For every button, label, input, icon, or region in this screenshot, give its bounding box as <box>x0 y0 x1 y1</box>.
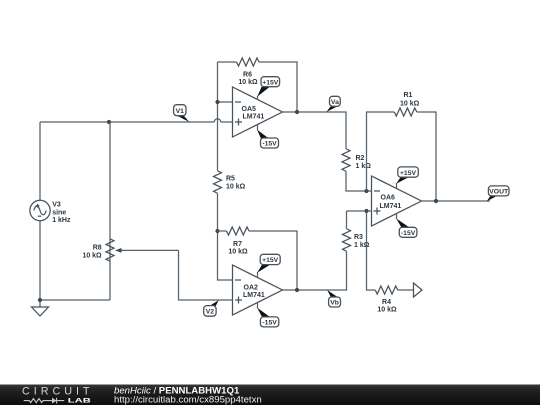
label R6 value <box>238 72 258 87</box>
svg-text:OA6: OA6 <box>381 195 396 202</box>
node junction OA5 minus <box>215 100 219 104</box>
label -15V (OA5) <box>257 130 278 148</box>
resistor R6 <box>237 58 260 66</box>
svg-text:Vb: Vb <box>330 300 339 307</box>
wire OA6 plus node to R4 <box>367 211 414 290</box>
label R7 value <box>228 241 248 256</box>
wire V3 bottom to ground rail <box>40 122 110 300</box>
node junction V1/R8 <box>107 120 111 124</box>
node junction ground <box>38 298 42 302</box>
svg-text:LM741: LM741 <box>380 203 402 210</box>
wire OA2 output to Vb/R3 <box>283 251 347 290</box>
svg-text:1 kHz: 1 kHz <box>52 217 71 224</box>
svg-text:R5: R5 <box>226 176 235 183</box>
svg-text:OA5: OA5 <box>242 106 257 113</box>
svg-text:10 kΩ: 10 kΩ <box>226 183 246 190</box>
svg-text:-15V: -15V <box>401 230 416 237</box>
svg-text:+15V: +15V <box>262 257 279 264</box>
svg-text:V1: V1 <box>176 108 185 115</box>
resistor R3 <box>343 229 351 251</box>
node junction OA6 minus <box>364 189 368 193</box>
power stub OA2 V+ <box>257 272 259 278</box>
voltage source V3 <box>30 200 50 220</box>
svg-text:-15V: -15V <box>262 141 277 148</box>
label -15V (OA2) <box>257 308 279 327</box>
svg-text:LM741: LM741 <box>243 114 265 121</box>
svg-text:-15V: -15V <box>262 320 277 327</box>
svg-text:V3: V3 <box>52 202 61 209</box>
svg-text:10 kΩ: 10 kΩ <box>82 253 102 260</box>
svg-text:R6: R6 <box>243 72 252 79</box>
svg-text:R3: R3 <box>354 234 363 241</box>
label +15V (OA2) <box>257 254 280 272</box>
svg-text:10 kΩ: 10 kΩ <box>238 79 258 86</box>
svg-text:10 kΩ: 10 kΩ <box>400 101 420 108</box>
wire OA5 output to Va/R2 <box>283 112 347 149</box>
node junction R5/R7 <box>215 229 219 233</box>
svg-text:R7: R7 <box>233 241 242 248</box>
svg-text:R1: R1 <box>404 92 413 99</box>
wire OA6 output to VOUT <box>422 200 491 202</box>
power stub OA6 V- <box>396 214 398 220</box>
power stub OA5 V+ <box>257 96 259 100</box>
resistor R4 <box>375 286 398 294</box>
wire R5 column <box>218 62 233 280</box>
label +15V (OA5) <box>257 77 279 97</box>
svg-text:LM741: LM741 <box>243 292 265 299</box>
power stub OA6 V+ <box>396 183 398 189</box>
svg-text:sine: sine <box>52 210 66 217</box>
label R1 value <box>400 92 420 108</box>
logo wire with resistor and diode <box>24 398 64 404</box>
wire R3 to OA6 plus <box>347 211 372 229</box>
wire top rail V1 net <box>40 122 233 200</box>
svg-text:+15V: +15V <box>400 170 417 177</box>
ground symbol <box>32 300 49 316</box>
wire R7 feedback loop <box>218 231 298 290</box>
node junction OA6 plus <box>364 209 368 213</box>
label Vb <box>327 290 340 307</box>
svg-text:OA2: OA2 <box>244 284 259 291</box>
svg-text:VOUT: VOUT <box>489 189 509 196</box>
resistor R7 <box>227 227 249 235</box>
resistor R1 <box>394 108 417 116</box>
label V1 <box>174 105 190 122</box>
label R2 value <box>356 155 372 170</box>
power stub OA5 V- <box>257 125 259 131</box>
ground symbol right <box>414 283 423 297</box>
label R8 value <box>82 245 102 260</box>
label R5 value <box>226 176 246 191</box>
wire hop over R5 column <box>214 119 220 122</box>
op-amp OA6 <box>372 176 422 226</box>
svg-text:10 kΩ: 10 kΩ <box>377 307 397 314</box>
svg-text:V2: V2 <box>206 309 215 316</box>
wire R1 feedback loop <box>367 112 437 201</box>
svg-text:1 kΩ: 1 kΩ <box>354 242 370 249</box>
label -15V (OA6) <box>396 219 417 238</box>
op-amp OA2 <box>233 265 283 315</box>
label Va <box>326 96 340 112</box>
resistor R5 <box>214 171 222 193</box>
svg-text:R2: R2 <box>356 155 365 162</box>
wire R8 wiper to OA2 plus input <box>179 250 233 300</box>
svg-text:1 kΩ: 1 kΩ <box>356 163 372 170</box>
op-amp OA5 <box>233 87 283 137</box>
label +15V (OA6) <box>396 167 418 184</box>
svg-text:R8: R8 <box>93 245 102 252</box>
svg-text:http://circuitlab.com/cx895pp4: http://circuitlab.com/cx895pp4tetxn <box>114 395 262 405</box>
svg-text:LAB: LAB <box>68 398 91 405</box>
potentiometer R8 <box>106 239 179 262</box>
label R4 value <box>377 299 397 314</box>
resistor R2 <box>342 149 350 171</box>
node junction OA6 output <box>434 199 438 203</box>
svg-text:Va: Va <box>331 99 339 106</box>
power stub OA2 V- <box>257 303 259 309</box>
wire R2 to OA6 minus <box>346 171 372 191</box>
label VOUT <box>487 186 509 201</box>
footer bar <box>0 385 540 405</box>
svg-text:10 kΩ: 10 kΩ <box>228 248 248 255</box>
wire R6 feedback loop <box>218 62 298 112</box>
label V3 value <box>52 202 71 224</box>
label V2 <box>204 300 219 316</box>
svg-text:+15V: +15V <box>262 79 279 86</box>
node junction OA5 output <box>295 110 299 114</box>
svg-text:R4: R4 <box>382 299 391 306</box>
label R3 value <box>354 234 370 249</box>
node junction OA2 output <box>295 288 299 292</box>
